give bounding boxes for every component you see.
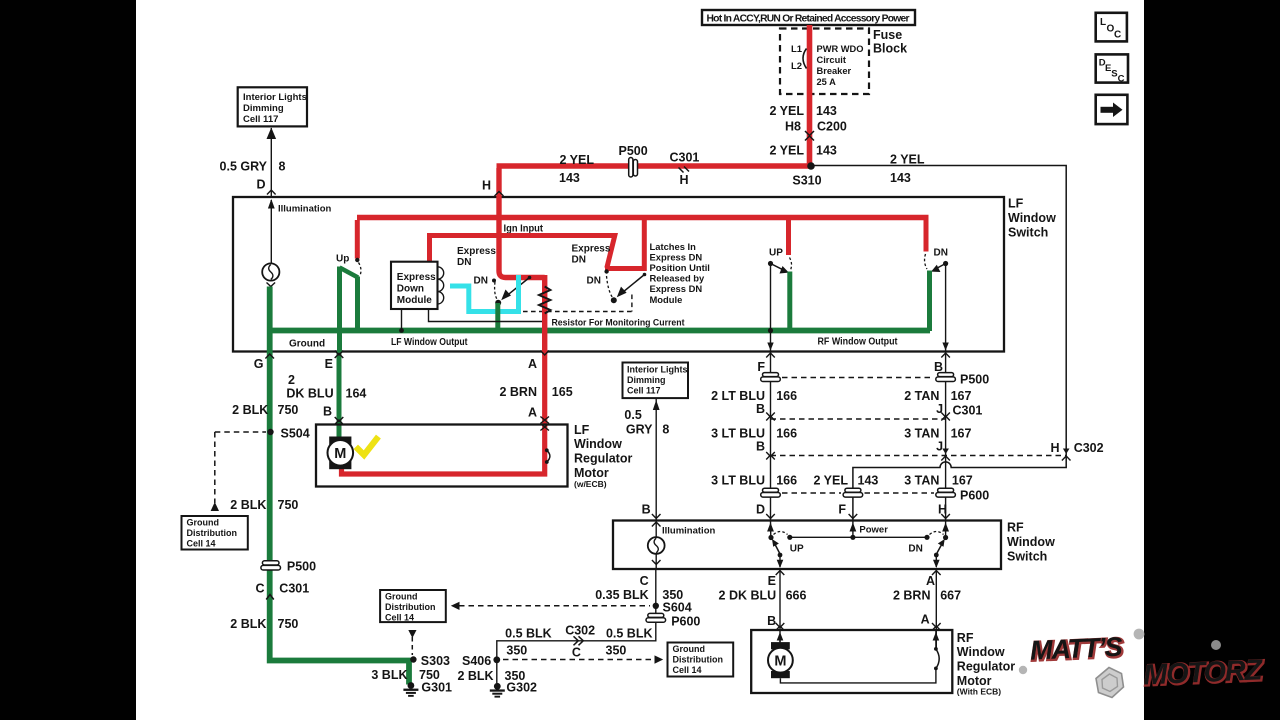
svg-text:166: 166 [776, 427, 797, 441]
svg-text:2 BLK: 2 BLK [232, 403, 268, 417]
ground distribution cell 14 box (middle) [380, 590, 446, 623]
svg-text:B: B [756, 402, 765, 416]
UP blade arrow from F wire to green [771, 264, 786, 271]
LOC nav box [1096, 13, 1127, 42]
wire label 2 BRN 165 [499, 385, 572, 399]
svg-text:C301: C301 [670, 151, 700, 165]
wire label 2 BLK 750 (upper) [232, 403, 298, 417]
wire label 2 YEL 143 (to RF switch) [813, 474, 878, 488]
svg-text:0.5 GRY: 0.5 GRY [220, 160, 268, 174]
svg-text:Ground: Ground [187, 518, 220, 528]
chevrons on E RF wire [776, 571, 785, 631]
LF output red wire with resistor (A output) [542, 275, 547, 352]
svg-text:3 TAN: 3 TAN [904, 427, 939, 441]
wire label 3 BLK 750 [371, 668, 440, 682]
P600 lens on F wire [843, 488, 863, 497]
svg-text:2 YEL: 2 YEL [813, 474, 848, 488]
connector H8 C200 labels [785, 120, 847, 134]
ground bus inside LF switch (green) [267, 328, 930, 334]
wire label 3 LT BLU 166 (upper) [711, 427, 797, 441]
red link from upper ign line down to express DN contact [605, 220, 644, 269]
svg-text:P600: P600 [671, 615, 700, 629]
svg-text:Down: Down [397, 283, 424, 294]
svg-text:3 BLK: 3 BLK [371, 668, 407, 682]
RF DN dashed throw arc [930, 532, 944, 535]
svg-text:A: A [926, 574, 935, 588]
RF UP blade arrow to E output [772, 539, 783, 568]
RF UP switch: D wire arrow + contact [767, 521, 774, 541]
svg-text:167: 167 [951, 389, 972, 403]
svg-text:UP: UP [790, 544, 804, 555]
DN red contact stub [924, 220, 929, 252]
wire label 2 LT BLU 166 [711, 389, 797, 403]
svg-text:C302: C302 [1074, 441, 1104, 455]
UP red contact stub [786, 220, 791, 255]
svg-text:DN: DN [457, 257, 471, 268]
svg-text:P600: P600 [960, 489, 989, 503]
RF Window Switch label [1007, 521, 1055, 564]
svg-text:M: M [334, 446, 346, 462]
dashed links in P600 row [782, 492, 934, 494]
Express DN label (second switch) [572, 244, 611, 266]
chevrons on E wire [335, 351, 344, 425]
in-line connector P500 on red feed [619, 144, 648, 177]
interior lights dimming cell 117 box (middle) [623, 363, 689, 399]
svg-text:C: C [255, 582, 264, 596]
svg-text:MATT’S: MATT’S [1029, 632, 1123, 666]
svg-text:Position Until: Position Until [650, 262, 710, 273]
svg-text:G: G [254, 357, 264, 371]
F output thin wire through box [770, 264, 772, 352]
P600 connector row: lens on D wire [761, 488, 781, 497]
second express switch latch arrow [617, 273, 647, 298]
fuse block dashed box [780, 29, 869, 95]
svg-text:F: F [838, 503, 846, 517]
svg-text:2 BLK: 2 BLK [230, 617, 266, 631]
wire label 2 YEL 143 (left segment) [559, 153, 594, 185]
svg-text:164: 164 [346, 387, 367, 401]
svg-text:C: C [1114, 30, 1121, 41]
svg-text:J: J [936, 440, 943, 454]
DN blade arrow from B wire to green [935, 264, 946, 270]
Up switch red contact stub [355, 220, 360, 259]
LF Window Regulator Motor label [574, 423, 632, 489]
wire label 2 BLK 750 (lower) [230, 617, 298, 631]
first express switch latch arrow [501, 276, 531, 301]
wire label 2 DK BLU 164 [286, 373, 366, 401]
ground G302 [490, 681, 537, 698]
svg-text:RF Window Output: RF Window Output [818, 337, 899, 348]
wire label 2 TAN 167 [904, 389, 971, 403]
F power feed into RF switch [850, 521, 857, 540]
svg-text:2 BLK: 2 BLK [457, 669, 493, 683]
second express switch dashed throw arc [607, 276, 613, 298]
B illumination wire to RF switch with up arrow [653, 399, 660, 521]
svg-text:2 BLK: 2 BLK [230, 498, 266, 512]
svg-text:Dimming: Dimming [243, 103, 284, 114]
svg-text:DK BLU: DK BLU [286, 387, 333, 401]
svg-text:MOTORZ: MOTORZ [1142, 654, 1264, 691]
svg-text:Resistor For Monitoring Curren: Resistor For Monitoring Current [552, 318, 686, 329]
Up switch contact dot [355, 258, 359, 262]
svg-text:Module: Module [650, 294, 683, 305]
dashed reference S406 to ground distribution (right box) [503, 655, 663, 663]
dashed reference to ground distribution (left) [211, 432, 219, 511]
horizontal red feed wire to H of LF switch [497, 163, 813, 169]
svg-text:Interior Lights: Interior Lights [243, 92, 307, 103]
wire label 3 TAN 167 (lower) [904, 474, 973, 488]
RF-side DN switch inside LF box [925, 220, 949, 352]
LF window switch box [233, 197, 1004, 352]
C301 dashed row with chevrons [766, 413, 950, 421]
svg-text:S604: S604 [663, 601, 692, 615]
svg-text:D: D [256, 178, 265, 192]
svg-text:Ground: Ground [289, 339, 325, 350]
svg-text:Express: Express [457, 246, 496, 257]
svg-text:0.5 BLK: 0.5 BLK [505, 627, 552, 641]
lamp symbol (RF illumination) [648, 537, 665, 554]
ground wire from lamp down through box (green) [267, 287, 273, 352]
module ground pin to bus [399, 309, 404, 333]
svg-text:Released by: Released by [650, 273, 706, 284]
wire label 2 YEL 143 (below C200) [769, 144, 836, 158]
svg-text:143: 143 [559, 171, 580, 185]
svg-text:Express: Express [572, 244, 611, 255]
svg-text:143: 143 [816, 144, 837, 158]
RF window regulator motor box [751, 630, 952, 693]
svg-text:C301: C301 [953, 404, 983, 418]
wire label 0.35 BLK 350 [595, 588, 683, 602]
wire label 3 TAN 167 (upper) [904, 427, 971, 441]
wire label 2 BRN 667 [893, 589, 961, 603]
wire label 0.5 GRY 8 (RF illumination) [624, 408, 669, 437]
svg-text:E: E [768, 574, 776, 588]
E output wire to RF motor [779, 569, 781, 642]
svg-text:750: 750 [278, 403, 299, 417]
green ground wire G down the left [270, 351, 409, 685]
module sense pin to resistor wire [429, 309, 544, 322]
connector C301 on ground wire [255, 582, 309, 600]
svg-text:UP: UP [769, 248, 783, 259]
svg-text:Window: Window [957, 645, 1005, 659]
splice S303 [410, 654, 450, 668]
svg-text:M: M [774, 653, 786, 669]
svg-text:2 BRN: 2 BRN [499, 385, 537, 399]
green wire from Up blade to E output (exits box) [337, 267, 342, 352]
svg-text:2 YEL: 2 YEL [769, 104, 804, 118]
svg-text:P500: P500 [619, 144, 648, 158]
left letterbox bar [0, 0, 136, 720]
in-line connector pair on B wire (P500) [936, 373, 989, 387]
wire label 2 BLK 350 [457, 669, 525, 683]
svg-text:Illumination: Illumination [662, 526, 716, 537]
svg-text:2 YEL: 2 YEL [559, 153, 594, 167]
DESC nav box [1096, 54, 1128, 84]
A output wire to RF motor [935, 569, 937, 648]
LF window regulator motor box [316, 425, 568, 487]
bolt graphic of logo [1096, 668, 1124, 698]
svg-text:167: 167 [952, 474, 973, 488]
chevrons on A wire [540, 351, 549, 431]
svg-text:(With ECB): (With ECB) [957, 687, 1001, 697]
chevrons on A RF wire [932, 571, 941, 631]
wire label 2 DK BLU 666 [719, 589, 807, 603]
svg-text:GRY: GRY [626, 423, 653, 437]
svg-text:H: H [482, 179, 491, 193]
wire label 3 LT BLU 166 (lower) [711, 474, 797, 488]
svg-text:2 YEL: 2 YEL [890, 153, 925, 167]
svg-text:Hot In ACCY,RUN Or Retained Ac: Hot In ACCY,RUN Or Retained Accessory Po… [707, 13, 910, 24]
svg-text:DN: DN [587, 276, 601, 287]
svg-text:L: L [1100, 17, 1106, 28]
svg-text:Switch: Switch [1008, 226, 1048, 240]
svg-text:Express DN: Express DN [650, 283, 703, 294]
C302 dashed row with chevrons and arrows [766, 449, 1070, 461]
svg-text:S504: S504 [281, 427, 310, 441]
splice S604 [653, 601, 692, 615]
svg-text:Fuse: Fuse [873, 28, 902, 42]
next-page arrow box [1096, 95, 1128, 124]
svg-text:Regulator: Regulator [574, 452, 632, 466]
svg-text:167: 167 [951, 427, 972, 441]
svg-text:LF: LF [1008, 197, 1024, 211]
RF DN blade arrow to A output [933, 539, 945, 568]
first express switch latch dot [495, 300, 501, 306]
wire label 0.5 BLK 350 (left of C302) [505, 627, 552, 658]
svg-text:8: 8 [662, 423, 669, 437]
splice S406 [462, 654, 500, 668]
svg-text:S: S [1111, 69, 1117, 80]
lamp symbol (LF illumination) [262, 263, 279, 286]
svg-text:2 YEL: 2 YEL [769, 144, 804, 158]
ECB breaker symbol (LF motor) [545, 448, 550, 464]
svg-text:25 A: 25 A [817, 77, 837, 87]
svg-text:PWR WDO: PWR WDO [817, 44, 864, 54]
connector C302 marks on ground jumper [565, 624, 595, 660]
svg-text:143: 143 [858, 474, 879, 488]
wire label 0.5 GRY 8 [220, 160, 286, 174]
B output thin wire through box [945, 264, 947, 352]
svg-text:B: B [756, 440, 765, 454]
Latches In note [650, 241, 710, 305]
green RF dn output to bus [927, 271, 932, 332]
svg-text:Window: Window [1007, 535, 1055, 549]
svg-text:Latches In: Latches In [650, 241, 697, 252]
yellow checkmark [358, 439, 377, 455]
svg-text:750: 750 [278, 617, 299, 631]
B output wire down to RF switch H [945, 352, 947, 521]
green wire from Up blade to ground bus [355, 277, 360, 332]
second express switch latch dot [611, 297, 617, 303]
svg-text:H8: H8 [785, 120, 801, 134]
Up switch dashed throw arc [359, 263, 361, 276]
Matt's Motorz watermark logo [1029, 632, 1265, 693]
wire label 2 BLK 750 (mid) [230, 498, 298, 512]
Ign Input red line (lower) to express module [430, 236, 615, 269]
wire label 2 YEL 143 (above C200) [769, 104, 836, 118]
express down module box [391, 262, 438, 309]
RF-side UP switch inside LF box [767, 220, 791, 352]
svg-text:Express DN: Express DN [650, 251, 703, 262]
svg-text:2: 2 [288, 373, 295, 387]
svg-text:3 LT BLU: 3 LT BLU [711, 427, 765, 441]
svg-text:RF: RF [957, 631, 974, 645]
svg-text:Cell 14: Cell 14 [187, 539, 216, 549]
logo debris dots [1019, 629, 1221, 675]
svg-text:0.5: 0.5 [624, 408, 641, 422]
F output wire down to RF switch D [770, 352, 772, 521]
svg-text:Cell 14: Cell 14 [385, 613, 414, 623]
2YEL feed from C302 down and left to RF switch F (hops over J wire) [853, 446, 1066, 521]
A output red wire to LF motor [342, 352, 545, 475]
PWR WDO circuit breaker 25A label [817, 44, 864, 87]
svg-text:P500: P500 [287, 560, 316, 574]
splice S310 dot [807, 162, 815, 170]
chevron at H box entry [495, 192, 504, 197]
svg-text:A: A [528, 357, 537, 371]
chevrons above RF box [652, 514, 950, 519]
Ign Input red line (upper) [357, 215, 929, 220]
svg-text:DN: DN [934, 248, 948, 259]
C200 connector chevrons on wire [805, 131, 814, 141]
svg-text:Ground: Ground [385, 592, 418, 602]
svg-text:2 BRN: 2 BRN [893, 589, 931, 603]
svg-text:G302: G302 [506, 681, 537, 695]
ground G301 [403, 681, 452, 697]
svg-text:B: B [323, 405, 332, 419]
svg-text:S303: S303 [421, 654, 450, 668]
svg-text:Cell 117: Cell 117 [627, 386, 661, 396]
svg-text:B: B [767, 614, 776, 628]
second express switch contact dot [604, 269, 608, 273]
svg-text:143: 143 [890, 171, 911, 185]
svg-text:350: 350 [506, 644, 527, 658]
svg-text:C302: C302 [565, 624, 595, 638]
svg-text:Up: Up [336, 254, 349, 265]
banner: Hot In ACCY,RUN Or Retained Accessory Power [702, 10, 915, 25]
RF motor symbol [768, 632, 793, 678]
svg-text:DN: DN [474, 276, 488, 287]
svg-text:LF Window Output: LF Window Output [391, 337, 468, 348]
svg-text:C: C [640, 574, 649, 588]
svg-text:Module: Module [397, 295, 432, 306]
module connector scallops [438, 267, 444, 304]
svg-text:2 LT BLU: 2 LT BLU [711, 389, 765, 403]
red feed drop into switch from H [499, 168, 545, 278]
svg-text:0.5 BLK: 0.5 BLK [606, 627, 653, 641]
in-line connector P600 on C wire [646, 613, 700, 628]
green stub from latch dot to ground bus [495, 303, 500, 331]
svg-text:D: D [756, 503, 765, 517]
wire label 2 YEL 143 (right thin segment) [890, 153, 925, 186]
connector C301 marks + labels on red feed [670, 151, 700, 188]
dashed link between P500 connectors [782, 377, 934, 379]
svg-text:Ground: Ground [673, 644, 706, 654]
UP dashed throw arc [790, 258, 792, 271]
svg-text:165: 165 [552, 385, 573, 399]
svg-text:666: 666 [786, 589, 807, 603]
svg-text:667: 667 [940, 589, 961, 603]
svg-text:Interior Lights: Interior Lights [627, 365, 688, 375]
resistor for monitoring current zigzag [539, 287, 550, 314]
chevron on F wire [766, 353, 775, 358]
svg-text:C301: C301 [279, 582, 309, 596]
H wire contact (RF DN) [942, 521, 949, 541]
svg-text:DN: DN [908, 544, 922, 555]
svg-text:0.35 BLK: 0.35 BLK [595, 588, 649, 602]
RF illumination feed through lamp [652, 521, 661, 570]
svg-text:Breaker: Breaker [817, 66, 852, 76]
dashed link from latch dot to resistor sense line [523, 295, 632, 312]
P600 lens on H wire [936, 488, 989, 502]
chevron G exit [265, 354, 274, 359]
main power feed red wire from banner through fuse block to S310 [807, 25, 813, 168]
svg-text:A: A [921, 613, 930, 627]
DN dashed throw arc [925, 254, 927, 269]
svg-text:DN: DN [572, 255, 586, 266]
svg-text:Circuit: Circuit [817, 55, 846, 65]
RF motor internal wiring with ECB [780, 631, 939, 683]
LF motor symbol [328, 437, 354, 470]
E output green wire to LF motor [337, 352, 342, 438]
svg-text:Illumination: Illumination [278, 204, 332, 215]
svg-text:Regulator: Regulator [957, 660, 1015, 674]
svg-text:H: H [1050, 441, 1059, 455]
svg-text:S406: S406 [462, 654, 491, 668]
svg-text:LF: LF [574, 423, 590, 437]
svg-text:8: 8 [279, 160, 286, 174]
svg-text:C: C [1118, 74, 1125, 85]
RF window switch box [613, 521, 1001, 570]
svg-text:L2: L2 [791, 61, 802, 72]
Express DN label (first switch) [457, 246, 496, 268]
svg-text:Distribution: Distribution [385, 602, 436, 612]
svg-text:C: C [572, 646, 581, 660]
svg-text:RF: RF [1007, 521, 1024, 535]
svg-text:143: 143 [816, 104, 837, 118]
green RF up output to bus [787, 272, 792, 332]
svg-text:A: A [528, 406, 537, 420]
svg-text:Window: Window [1008, 211, 1056, 225]
svg-text:2 TAN: 2 TAN [904, 389, 939, 403]
cyan wire express module to switch [450, 275, 519, 312]
right letterbox bar [1144, 0, 1280, 720]
svg-text:750: 750 [278, 498, 299, 512]
thin 2YEL wire from S310 right and down to C302 [812, 166, 1066, 447]
svg-text:166: 166 [776, 389, 797, 403]
svg-text:350: 350 [606, 644, 627, 658]
svg-text:E: E [325, 357, 333, 371]
svg-text:3 TAN: 3 TAN [904, 474, 939, 488]
dashed reference S604 to ground distribution (middle box) [451, 602, 650, 610]
in-line connector pair on F wire (P500) [761, 373, 781, 382]
svg-text:3 LT BLU: 3 LT BLU [711, 474, 765, 488]
C ground output wire from RF switch [497, 569, 656, 683]
svg-text:L1: L1 [791, 44, 803, 55]
first express switch dashed throw arc [495, 282, 498, 300]
svg-text:C200: C200 [817, 120, 847, 134]
D illumination wire with up arrow [267, 128, 277, 197]
Up switch green blade [340, 268, 359, 278]
ground distribution cell 14 box (left) [182, 516, 248, 550]
in-line connector P500 on ground wire [261, 560, 316, 574]
svg-text:Block: Block [873, 42, 907, 56]
LF Window Switch label [1008, 197, 1056, 240]
svg-text:Cell 14: Cell 14 [673, 665, 702, 675]
svg-text:(w/ECB): (w/ECB) [574, 479, 607, 489]
svg-text:Distribution: Distribution [673, 655, 724, 665]
svg-text:H: H [680, 173, 689, 187]
